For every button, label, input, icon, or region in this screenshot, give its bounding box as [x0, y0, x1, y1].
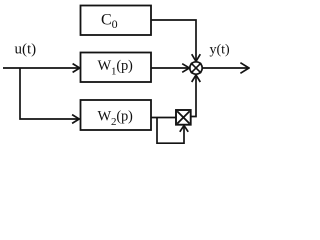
wire: multiplier output up to summing junction bottom: [191, 75, 201, 117]
wire: u(t) input to W1: [3, 64, 80, 73]
svg-text:y(t): y(t): [210, 42, 231, 57]
multiplier M1 (square with X): [176, 110, 191, 125]
block C0: [81, 6, 152, 36]
svg-text:u(t): u(t): [15, 42, 37, 58]
wire: W2 output to multiplier left: [151, 117, 176, 119]
wire: summing junction output y(t): [202, 63, 249, 74]
wire: feedback tap loop to multiplier bottom: [157, 118, 188, 144]
block W2: [81, 100, 152, 130]
summing junction S1 (circle with X): [190, 62, 202, 74]
wire: C0 output to summing junction top: [151, 20, 200, 61]
wire: W1 output to summing junction left: [151, 64, 189, 73]
wire: branch junction down to W2 input: [20, 68, 79, 123]
block W1: [81, 53, 152, 83]
